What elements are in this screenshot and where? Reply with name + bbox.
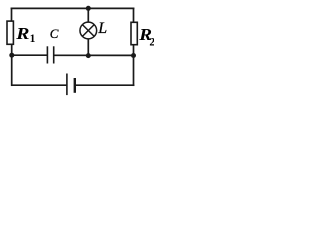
- wire lamp lower: [87, 39, 89, 55]
- lamp L: [80, 22, 97, 39]
- svg-text:2: 2: [149, 36, 154, 48]
- svg-text:L: L: [97, 20, 107, 37]
- wire left lower: [11, 45, 13, 86]
- wire bottom left: [12, 84, 66, 86]
- node junction middle: [86, 53, 91, 58]
- node junction right: [131, 53, 136, 58]
- wire middle right: [54, 54, 133, 56]
- wire bottom right: [75, 84, 133, 86]
- wire lamp upper: [87, 8, 89, 22]
- wire left upper: [11, 8, 13, 20]
- battery B1: [67, 74, 75, 96]
- node junction top: [86, 6, 91, 11]
- node junction left: [9, 53, 14, 58]
- capacitor C: [47, 46, 53, 63]
- svg-text:R: R: [15, 25, 29, 43]
- wire right lower: [133, 45, 135, 85]
- resistor R1: [7, 21, 13, 44]
- resistor R2: [131, 22, 137, 44]
- wire right upper: [133, 8, 135, 22]
- wire top: [12, 7, 134, 9]
- svg-text:1: 1: [30, 33, 36, 45]
- wire middle left: [12, 54, 47, 56]
- svg-text:C: C: [50, 26, 59, 41]
